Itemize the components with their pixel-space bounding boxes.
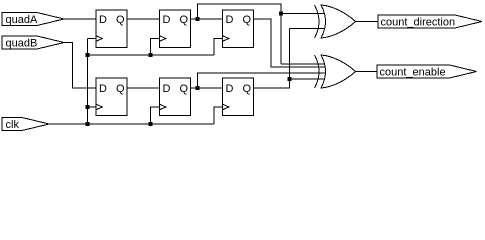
svg-text:clk: clk: [6, 119, 20, 131]
svg-text:Q: Q: [179, 14, 188, 26]
wire quadA to U1.D: [64, 18, 96, 20]
wire clk riser 2 top to U2 clock: [151, 39, 160, 56]
svg-text:D: D: [163, 14, 171, 26]
wire U1.Q to U2.D: [127, 18, 160, 20]
io marker count_direction: [378, 15, 482, 29]
wire XOR1 output to count_direction: [356, 21, 379, 23]
clock triangle U6: [223, 104, 229, 110]
io marker quadB: [2, 36, 64, 50]
svg-text:Q: Q: [242, 83, 251, 95]
flip-flop U4 box: [96, 78, 127, 116]
svg-text:quadA: quadA: [6, 14, 38, 26]
svg-text:Q: Q: [242, 14, 251, 26]
io marker quadA: [2, 13, 64, 27]
flip-flop U5 box: [160, 78, 191, 116]
clock triangle U5: [160, 104, 166, 110]
svg-text:Q: Q: [116, 14, 125, 26]
wire quadA_dly2 into XOR2 input 1: [281, 63, 326, 65]
flip-flop U2 box: [160, 10, 191, 48]
svg-text:Q: Q: [179, 83, 188, 95]
wire quadB_dly3 to XOR1 lower input: [290, 28, 327, 30]
wire U4.Q to U5.D: [127, 87, 160, 89]
xor gate XOR1 body: [321, 5, 356, 38]
svg-text:D: D: [99, 83, 107, 95]
node clk at riser2/top bus: [149, 53, 153, 57]
svg-text:quadB: quadB: [6, 38, 38, 50]
wire U3.Q to XOR2 input 2: [254, 19, 327, 67]
clock triangle U4: [96, 104, 102, 110]
wire clk riser 2 bottom to U5 clock: [151, 107, 160, 124]
svg-text:count_direction: count_direction: [381, 17, 456, 29]
wire XOR2 output to count_enable: [356, 71, 378, 73]
io marker count_enable: [377, 65, 477, 79]
node clk at riser1/U4 stub: [86, 105, 90, 109]
xor gate XOR2 body: [321, 55, 356, 88]
node quadB_dly3 tee: [288, 77, 292, 81]
xor gate XOR2 input arc: [315, 55, 320, 88]
node clk at riser2/bottom bus: [149, 122, 153, 126]
flip-flop U6 box: [223, 78, 254, 116]
wire clk top bus: [88, 54, 215, 56]
wire clk riser 3 top to U3 clock: [214, 39, 223, 56]
node clk at riser1/top bus: [86, 53, 90, 57]
svg-text:D: D: [163, 83, 171, 95]
wire quadB to U4.D: [64, 43, 96, 89]
flip-flop U1 box: [96, 10, 127, 48]
wire U6.Q up the channel: [254, 29, 290, 89]
wire U2.Q to U3.D: [191, 18, 223, 20]
svg-text:Q: Q: [116, 83, 125, 95]
node clk at riser1/bottom bus: [86, 122, 90, 126]
wire U5.Q to U6.D: [191, 87, 223, 89]
wire clk stub to U4 clock: [88, 106, 97, 108]
wire net quadA_dly2 riser up from junction: [198, 4, 282, 64]
wire net quadB_dly2 riser to XOR2 input 3: [198, 73, 327, 88]
flip-flop U3 box: [223, 10, 254, 48]
junction dots: [86, 12, 292, 127]
wire clk riser 3 bottom to U6 clock: [214, 107, 223, 124]
wire clk riser 1: [87, 39, 89, 125]
clock triangle U2: [160, 36, 166, 42]
wire quadA_dly2 tee to XOR1 upper input: [281, 13, 326, 15]
svg-text:count_enable: count_enable: [380, 67, 446, 79]
svg-text:D: D: [99, 14, 107, 26]
node quadA_dly2 at U2.Q: [196, 17, 200, 21]
xor gate XOR1 input arc: [315, 5, 320, 38]
wire clk bus bottom: [49, 123, 214, 125]
wire quadB_dly3 tee to XOR2 input 4: [290, 78, 327, 80]
clock triangle U1: [96, 36, 102, 42]
wire clk stub to U1 clock: [88, 38, 97, 40]
svg-text:D: D: [226, 14, 234, 26]
io marker clk: [2, 118, 49, 132]
node quadA_dly2 tee: [279, 12, 283, 16]
flip-flop pin labels: [99, 14, 251, 95]
node quadB_dly2 at U5.Q: [196, 86, 200, 90]
clock triangle U3: [223, 36, 229, 42]
svg-text:D: D: [226, 83, 234, 95]
